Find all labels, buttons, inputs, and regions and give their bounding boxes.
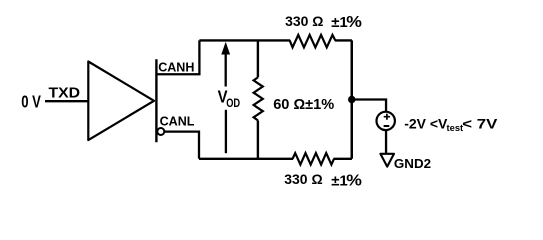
svg-text:OD: OD [226, 97, 240, 110]
ground GND2 [380, 154, 394, 167]
wire source to ground [385, 130, 387, 154]
plus sign [384, 114, 390, 120]
node junction dot [348, 96, 356, 104]
resistor R1 330 ohm top [290, 35, 336, 48]
svg-text:±1: ±1 [331, 172, 348, 189]
svg-text:CANL: CANL [160, 113, 195, 128]
wire TXD input [45, 100, 88, 102]
wire tap to source [352, 100, 386, 113]
voltage source V1 [377, 112, 395, 130]
inverter bubble on CANL output [157, 128, 164, 135]
svg-text:330 Ω: 330 Ω [285, 13, 323, 29]
wire CANH to top rail [156, 40, 199, 74]
wire output pin bar [155, 59, 157, 142]
wire right vertical bus [351, 40, 354, 158]
svg-text:330 Ω: 330 Ω [284, 171, 322, 187]
svg-text:%: % [346, 171, 362, 189]
svg-text:GND2: GND2 [394, 156, 431, 171]
wire top rail right [335, 39, 352, 41]
wire bottom rail left [199, 158, 293, 160]
wire bottom rail right [334, 158, 352, 160]
svg-text:±1: ±1 [331, 14, 348, 31]
wire 60 ohm bottom lead [257, 120, 259, 158]
op-amp U1 driver triangle [88, 62, 154, 141]
wire CANL to bottom rail [165, 132, 199, 159]
svg-text:TXD: TXD [49, 85, 81, 101]
measurement arrow VOD [221, 42, 230, 55]
minus sign [384, 125, 390, 127]
svg-text:%: % [346, 13, 362, 31]
wire 60 ohm top lead [257, 40, 259, 77]
resistor R3 330 ohm bottom [293, 153, 334, 165]
svg-text:-2V <V: -2V <V [404, 116, 448, 132]
resistor R2 60 ohm middle [254, 77, 263, 120]
svg-text:60 Ω±1%: 60 Ω±1% [273, 97, 334, 113]
wire top rail left [199, 39, 290, 41]
svg-text:0 V: 0 V [21, 93, 41, 112]
svg-text:CANH: CANH [158, 59, 194, 74]
svg-text:test: test [447, 122, 464, 133]
svg-text:< 7V: < 7V [462, 117, 498, 132]
